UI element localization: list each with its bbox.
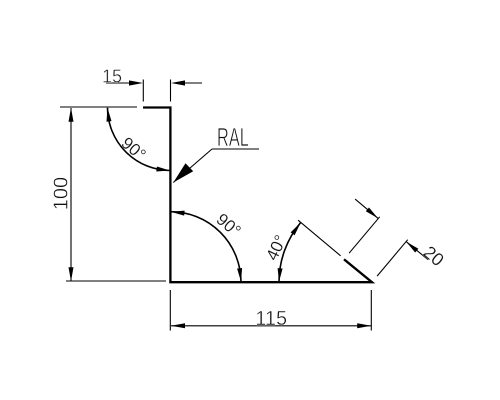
dim 20: lower arrowhead bbox=[406, 242, 418, 253]
angle 90 bottom: arrowhead at base bbox=[237, 268, 242, 282]
dim 100: text bbox=[51, 177, 73, 210]
angle 40: arrowhead at base bbox=[278, 268, 283, 282]
svg-text:115: 115 bbox=[255, 308, 287, 330]
dim 15: right tail line bbox=[185, 82, 202, 84]
svg-text:15: 15 bbox=[102, 67, 122, 87]
dim 15: left arrowhead bbox=[129, 80, 143, 85]
dim 100: bottom extension line bbox=[66, 280, 166, 282]
dim 20: text bbox=[419, 242, 447, 270]
angle 90 top: text bbox=[118, 133, 150, 164]
angle 90 top: arrowhead at extension line bbox=[107, 108, 112, 122]
dim 20: upper dimension tail bbox=[355, 199, 378, 218]
dim 115: dimension line bbox=[171, 325, 371, 327]
angle 40: radial extension line of kick bbox=[298, 220, 341, 256]
angle 40: text bbox=[262, 232, 290, 263]
dim 115: right arrowhead bbox=[357, 323, 371, 328]
dim 15: extension line left bbox=[142, 80, 144, 102]
dim 20: upper arrowhead bbox=[366, 208, 378, 219]
RAL leader: underline bbox=[212, 148, 259, 150]
svg-text:90°: 90° bbox=[213, 210, 245, 241]
svg-text:40°: 40° bbox=[262, 232, 290, 263]
dim 115: left extension line bbox=[169, 290, 171, 331]
dim 20: lower dimension tail bbox=[406, 242, 428, 260]
dim 15: right arrowhead bbox=[171, 80, 185, 85]
angle 90 bottom: arrowhead at leg bbox=[171, 211, 185, 216]
angle 40: arrowhead at radial line bbox=[291, 222, 301, 235]
dim 115: left arrowhead bbox=[171, 323, 185, 328]
dim 115: right extension line bbox=[370, 290, 372, 331]
svg-text:RAL: RAL bbox=[217, 122, 249, 152]
svg-text:90°: 90° bbox=[118, 133, 150, 164]
dim 15: extension line right bbox=[170, 80, 172, 102]
svg-text:20: 20 bbox=[419, 242, 447, 270]
dim 100: top extension line bbox=[60, 106, 137, 108]
angle 90 top: arrowhead at leg bbox=[156, 167, 170, 172]
dim 20: extension line upper (from kick end) bbox=[349, 217, 380, 253]
angle 90 bottom: arc bbox=[171, 212, 242, 283]
RAL leader: arrowhead bbox=[173, 163, 193, 182]
RAL leader: diagonal line bbox=[173, 149, 212, 183]
svg-text:100: 100 bbox=[51, 177, 73, 210]
angle 90 bottom: text bbox=[213, 210, 245, 241]
dim 100: top arrowhead bbox=[69, 108, 74, 122]
angle 90 top: arc bbox=[108, 108, 171, 171]
profile outline (flange 15, leg 100, base 115, 40-deg kick) bbox=[143, 108, 372, 283]
angle 40: arc bbox=[279, 222, 301, 282]
dim 100: dimension line bbox=[70, 108, 72, 281]
RAL label text bbox=[217, 122, 249, 152]
dim 100: bottom arrowhead bbox=[69, 267, 74, 281]
dim 20: extension line lower (from base corner) bbox=[377, 240, 408, 276]
dim 15: left tail line bbox=[106, 82, 130, 84]
